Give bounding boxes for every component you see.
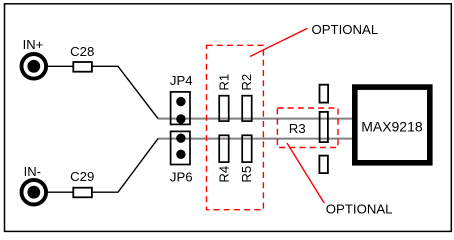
- svg-text:R2: R2: [239, 74, 254, 91]
- svg-text:OPTIONAL: OPTIONAL: [326, 202, 393, 217]
- svg-text:IN+: IN+: [23, 37, 44, 52]
- svg-text:JP4: JP4: [170, 73, 193, 88]
- svg-text:C28: C28: [70, 44, 94, 59]
- svg-text:MAX9218: MAX9218: [361, 118, 423, 134]
- svg-text:JP6: JP6: [170, 169, 193, 184]
- svg-text:R1: R1: [217, 74, 232, 91]
- svg-text:IN-: IN-: [24, 164, 41, 179]
- svg-text:C29: C29: [70, 169, 94, 184]
- svg-text:R4: R4: [217, 166, 232, 183]
- svg-text:R3: R3: [289, 121, 306, 136]
- svg-text:R5: R5: [239, 166, 254, 183]
- svg-text:OPTIONAL: OPTIONAL: [312, 22, 379, 37]
